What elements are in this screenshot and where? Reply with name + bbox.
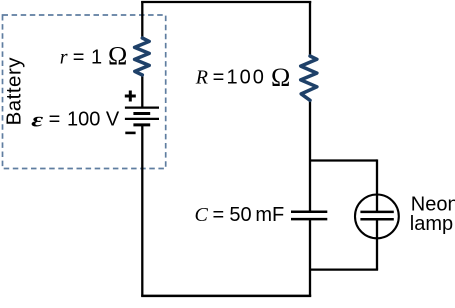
svg-text:Neon: Neon <box>411 193 455 215</box>
svg-text:Ω: Ω <box>271 63 290 92</box>
svg-text:Ω: Ω <box>108 42 127 71</box>
svg-text:=: = <box>73 47 85 69</box>
svg-text:mF: mF <box>255 204 284 226</box>
svg-text:100 V: 100 V <box>67 109 120 131</box>
svg-text:=: = <box>213 67 225 89</box>
svg-text:r: r <box>60 47 68 69</box>
svg-text:Battery: Battery <box>3 57 26 126</box>
svg-text:=: = <box>213 204 225 226</box>
svg-text:ε: ε <box>31 110 44 132</box>
svg-text:100: 100 <box>227 67 266 89</box>
svg-text:lamp: lamp <box>410 213 453 235</box>
svg-text:R: R <box>195 67 208 89</box>
svg-text:1: 1 <box>91 47 102 69</box>
svg-text:=: = <box>49 109 61 131</box>
svg-text:50: 50 <box>229 204 251 226</box>
svg-text:C: C <box>195 204 209 226</box>
